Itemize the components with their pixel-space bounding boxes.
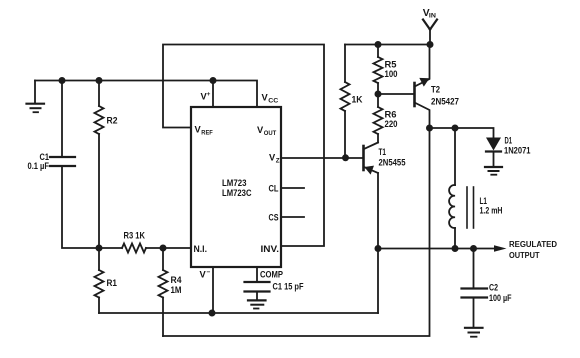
wire CL pin	[281, 187, 304, 189]
svg-text:+: +	[207, 92, 211, 98]
svg-text:2N5427: 2N5427	[431, 97, 459, 107]
svg-text:R1: R1	[107, 278, 118, 288]
svg-text:C2: C2	[489, 283, 498, 293]
svg-text:Z: Z	[276, 157, 280, 164]
junction dot L1 top	[452, 125, 459, 132]
svg-text:C1 15 pF: C1 15 pF	[273, 282, 304, 292]
label V- pin	[200, 269, 211, 280]
svg-text:LM723C: LM723C	[222, 188, 252, 198]
ground C2	[465, 298, 483, 337]
svg-text:R5: R5	[385, 60, 397, 70]
svg-text:T1: T1	[379, 147, 387, 157]
label VOUT pin	[257, 125, 276, 137]
svg-text:REF: REF	[201, 129, 213, 136]
ground	[27, 81, 45, 113]
wire T2 base	[378, 93, 413, 95]
svg-text:220: 220	[385, 119, 398, 129]
svg-text:1K: 1K	[352, 95, 363, 105]
svg-text:D1: D1	[505, 136, 513, 146]
ground COMP	[248, 292, 266, 309]
wire V- stub	[212, 267, 214, 313]
junction dot R5 top	[375, 41, 382, 48]
wire ground rail to V+/VCC	[35, 81, 257, 108]
junction dot R5/R6/T2 base	[375, 91, 382, 98]
svg-text:V: V	[200, 270, 207, 280]
svg-text:INV.: INV.	[261, 244, 280, 254]
svg-text:T2: T2	[431, 85, 440, 95]
label VZ pin	[269, 153, 280, 165]
junction dot T1 emitter / rail	[375, 245, 382, 252]
wire T1 base	[346, 157, 363, 159]
wire VZ pin	[281, 157, 346, 159]
svg-text:IN: IN	[429, 12, 436, 19]
op-amp U1 LM723 box	[191, 107, 281, 267]
svg-text:R3 1K: R3 1K	[124, 231, 146, 241]
svg-text:2N5455: 2N5455	[379, 158, 406, 168]
junction dot R2 top	[96, 77, 103, 84]
svg-text:−: −	[207, 269, 211, 276]
resistor R4	[159, 248, 168, 336]
label V+ pin	[201, 92, 211, 102]
label VREF pin	[195, 125, 213, 137]
wire CS pin	[281, 216, 304, 218]
svg-text:R6: R6	[385, 110, 397, 120]
junction dot C1 top	[59, 77, 66, 84]
svg-text:1N2071: 1N2071	[504, 146, 531, 156]
resistor R6	[374, 94, 383, 143]
inductor L1	[449, 128, 473, 249]
svg-text:100: 100	[385, 69, 398, 79]
junction dot VZ/T1 base	[342, 154, 349, 161]
svg-text:CL: CL	[269, 184, 279, 194]
resistor R3	[99, 244, 163, 253]
svg-text:L1: L1	[480, 196, 488, 206]
svg-text:OUT: OUT	[264, 130, 277, 137]
junction dot R1/R2/R3 node	[96, 245, 103, 252]
capacitor C1 15pF on COMP	[245, 267, 270, 292]
junction dot VIN	[427, 41, 434, 48]
wire V+ stub	[212, 81, 214, 108]
transistor T2 2N5427	[415, 45, 430, 129]
svg-text:COMP: COMP	[260, 270, 283, 280]
svg-text:0.1 µF: 0.1 µF	[28, 161, 50, 171]
svg-text:1.2 mH: 1.2 mH	[480, 206, 503, 216]
capacitor C2	[462, 249, 488, 298]
svg-text:CC: CC	[268, 97, 278, 104]
wire output sense bottom rail	[99, 312, 378, 314]
svg-text:N.I.: N.I.	[194, 244, 208, 254]
svg-text:R4: R4	[171, 275, 183, 285]
junction dot N.I. node	[160, 245, 167, 252]
junction dot T2 emitter node	[426, 125, 433, 132]
label VCC pin	[262, 93, 279, 105]
wire N.I. pin	[163, 247, 191, 249]
resistor R2	[95, 81, 104, 249]
junction dot C2 top	[470, 245, 477, 252]
resistor R5	[374, 45, 383, 95]
junction dot V+	[210, 77, 217, 84]
junction dot V- node	[209, 310, 216, 317]
svg-text:100 µF: 100 µF	[489, 293, 512, 303]
ground D1	[485, 167, 502, 175]
svg-text:1M: 1M	[171, 285, 182, 295]
svg-text:R2: R2	[107, 116, 118, 126]
wire top rail VIN	[345, 44, 430, 46]
wire output rail	[378, 248, 495, 250]
junction dot L1 bottom	[452, 245, 459, 252]
svg-text:OUTPUT: OUTPUT	[509, 250, 540, 260]
wire VREF to INV loop	[163, 45, 324, 247]
resistor R1	[95, 248, 104, 313]
resistor 1K	[341, 45, 350, 159]
node regulated output arrow	[494, 245, 507, 252]
node VIN terminal	[423, 20, 437, 45]
capacitor C1	[50, 81, 99, 249]
label VIN	[423, 8, 437, 19]
transistor T1 2N5455	[364, 143, 379, 314]
diode D1 1N2071	[486, 138, 501, 167]
svg-text:REGULATED: REGULATED	[509, 239, 557, 249]
svg-text:CS: CS	[269, 213, 279, 223]
svg-text:LM723: LM723	[222, 178, 247, 188]
wire to D1	[430, 128, 494, 138]
wire R4 to D1 node bottom rail	[163, 128, 430, 336]
